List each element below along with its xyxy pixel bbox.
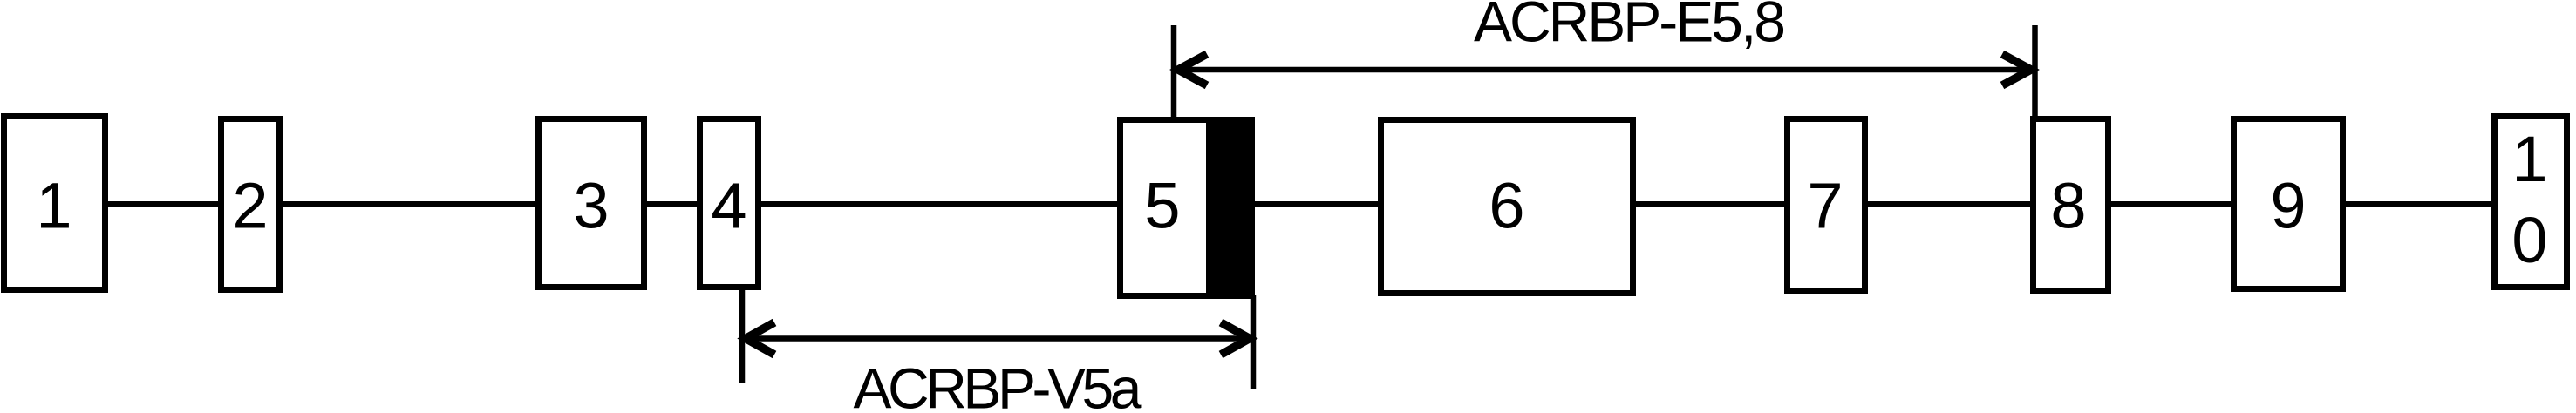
exon 2	[221, 119, 280, 290]
svg-text:8: 8	[2050, 170, 2086, 242]
intron segment 4-5	[758, 201, 1121, 207]
ACRBP-E5,8 right arrowhead	[2002, 54, 2031, 85]
svg-text:7: 7	[1807, 170, 1843, 242]
exon 3	[539, 119, 644, 288]
svg-text:4: 4	[711, 170, 746, 242]
ACRBP-E5,8 left arrowhead	[1178, 54, 1207, 85]
intron segment 8-9	[2108, 201, 2234, 207]
svg-text:5: 5	[1144, 170, 1180, 242]
exon 5	[1121, 120, 1251, 296]
intron segment 1-2	[105, 201, 222, 207]
exon 4	[700, 119, 759, 288]
ACRBP-V5a right arrowhead	[1221, 322, 1250, 355]
intron segment 6-7	[1632, 201, 1788, 207]
intron segment 7-8	[1864, 201, 2034, 207]
intron segment 2-3	[279, 201, 539, 207]
exon 9	[2234, 119, 2343, 289]
exon 7	[1788, 119, 1865, 291]
exon 8	[2034, 119, 2109, 291]
svg-text:6: 6	[1489, 170, 1524, 242]
svg-text:3: 3	[573, 170, 609, 242]
intron segment 5-6	[1250, 201, 1381, 207]
ACRBP-V5a left tick (below exon 4)	[739, 290, 746, 383]
svg-text:9: 9	[2270, 170, 2306, 242]
svg-text:1: 1	[2511, 123, 2547, 195]
intron segment 9-10	[2342, 201, 2495, 207]
svg-text:2: 2	[232, 170, 268, 242]
svg-text:ACRBP-E5,8: ACRBP-E5,8	[1474, 0, 1786, 54]
ACRBP-E5,8 double arrow shaft	[1179, 67, 2030, 73]
exon 5 black 3-prime segment	[1206, 117, 1255, 299]
exon 10	[2495, 117, 2567, 288]
ACRBP-V5a left arrowhead	[746, 322, 774, 355]
ACRBP-E5,8 right tick (above exon 8)	[2032, 25, 2038, 116]
svg-text:ACRBP-V5a: ACRBP-V5a	[854, 356, 1142, 413]
exon 1	[4, 117, 106, 290]
intron segment 3-4	[644, 201, 700, 207]
ACRBP-E5,8 left tick (above exon 5)	[1171, 25, 1177, 117]
svg-text:1: 1	[36, 170, 72, 242]
svg-text:0: 0	[2511, 204, 2547, 276]
ACRBP-V5a double arrow shaft	[746, 335, 1249, 342]
ACRBP-V5a right tick (below exon 5 black segment)	[1251, 295, 1257, 389]
exon 6	[1381, 120, 1633, 294]
